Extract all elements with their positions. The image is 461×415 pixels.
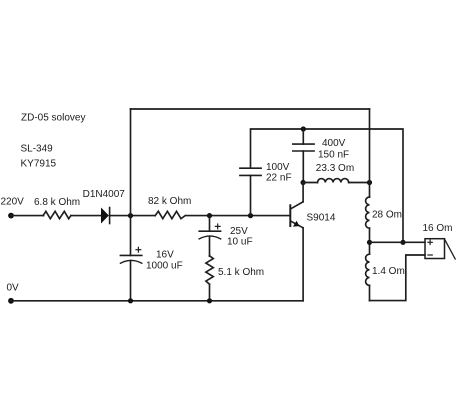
svg-text:82 k Ohm: 82 k Ohm [148,196,191,207]
transistor Q1 S9014 [290,202,303,228]
svg-text:100V: 100V [266,162,290,173]
wire R3 to bottom rail [209,284,211,301]
svg-text:5.1 k Ohm: 5.1 k Ohm [218,267,264,278]
speaker LS1 16 Om [425,239,455,259]
capacitor C4 400V 150nF [293,144,314,151]
wire 220V rail to R1 [11,215,44,217]
junction node at x303.3 second rail [301,126,306,131]
svg-text:16 Om: 16 Om [423,223,453,234]
wire left vertical lower segment [130,260,132,300]
resistor R1 6.8 k Ohm [43,211,71,218]
junction node at x130 main rail [128,213,133,218]
wire C2 to R3 [209,236,211,256]
junction node bottom x209.5 [207,298,212,303]
resistor R3 5.1 k Ohm [206,256,213,284]
wire left vertical upper segment [130,109,132,255]
wire C4 to collector node [302,151,304,183]
capacitor C1 16V 1000uF [120,247,141,263]
svg-text:16V: 16V [156,250,174,261]
wire speaker feed [370,241,426,243]
wire emitter vertical [302,228,304,301]
wire right vertical upper [369,109,371,183]
wire collector node to L1 [303,182,317,184]
junction node x403 y242.3 [400,240,405,245]
resistor R2 82 k Ohm [155,211,185,218]
inductor L3 1.4 Om [366,254,370,285]
svg-text:220V: 220V [1,197,25,208]
node 220V input terminal [8,213,14,219]
wire L2 to node [369,228,371,254]
svg-text:28 Om: 28 Om [372,209,402,220]
wire L3 to bottom right rail [369,285,371,300]
junction node x369.5 y242.3 [367,240,372,245]
svg-text:23.3 Om: 23.3 Om [316,163,354,174]
wire R1 to D1 [71,215,101,217]
svg-text:D1N4007: D1N4007 [83,189,126,200]
wire 0V bottom rail [11,300,303,302]
wire collector vertical [302,183,304,202]
inductor L1 23.3 Om [317,179,348,183]
wire second rail to C4 [302,129,304,144]
capacitor C2 25V 10uF [199,224,220,239]
svg-text:22 nF: 22 nF [266,173,292,184]
svg-text:10 uF: 10 uF [227,237,253,248]
wire branch x209.5 upper [209,216,211,232]
junction node at x250.5 main rail [248,213,253,218]
wire R2 to base of Q1 [186,215,290,217]
inductor L2 28 Om [366,197,370,228]
wire D1 to R2 [110,215,156,217]
capacitor C3 100V 22nF [240,168,261,175]
svg-text:1000 uF: 1000 uF [146,261,183,272]
wire C3 top to second rail and far right vertical [251,129,404,242]
svg-text:SL-349: SL-349 [21,144,54,155]
wire speaker return [370,255,426,301]
junction node collector x303 [301,180,306,185]
svg-text:25V: 25V [230,226,248,237]
junction node bottom x130.5 [128,298,133,303]
junction node right vertical top [367,180,372,185]
wire top rail [131,108,370,110]
svg-text:0V: 0V [7,282,20,293]
svg-text:KY7915: KY7915 [21,158,57,169]
svg-text:400V: 400V [322,138,346,149]
node 0V terminal [8,298,14,304]
svg-text:6.8 k Ohm: 6.8 k Ohm [34,197,80,208]
svg-text:S9014: S9014 [307,212,336,223]
svg-text:150 nF: 150 nF [318,150,349,161]
wire L1 to right vertical [349,182,370,184]
wire right vertical to L2 [369,183,371,198]
svg-text:ZD-05 solovey: ZD-05 solovey [21,112,85,123]
junction node at x209.5 main rail [207,213,212,218]
svg-text:1.4 Om: 1.4 Om [372,266,405,277]
diode D1 D1N4007 [101,208,110,224]
wire branch x250.5 lower (to C3) [250,175,252,215]
